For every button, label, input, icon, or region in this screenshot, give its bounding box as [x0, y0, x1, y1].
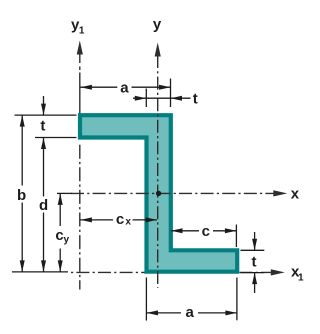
svg-text:c: c	[202, 223, 210, 240]
svg-text:t: t	[252, 253, 257, 270]
svg-text:1: 1	[79, 26, 85, 37]
svg-text:a: a	[120, 80, 129, 97]
svg-text:a: a	[186, 304, 195, 321]
svg-text:t: t	[193, 91, 198, 108]
svg-text:y: y	[64, 235, 70, 246]
svg-text:t: t	[40, 118, 45, 135]
svg-text:y: y	[153, 16, 162, 33]
svg-text:d: d	[39, 197, 48, 214]
svg-text:x: x	[125, 217, 131, 228]
svg-text:c: c	[116, 211, 124, 228]
svg-text:1: 1	[298, 273, 304, 284]
svg-text:c: c	[55, 227, 63, 244]
svg-text:b: b	[17, 187, 26, 204]
svg-text:x: x	[291, 186, 300, 203]
